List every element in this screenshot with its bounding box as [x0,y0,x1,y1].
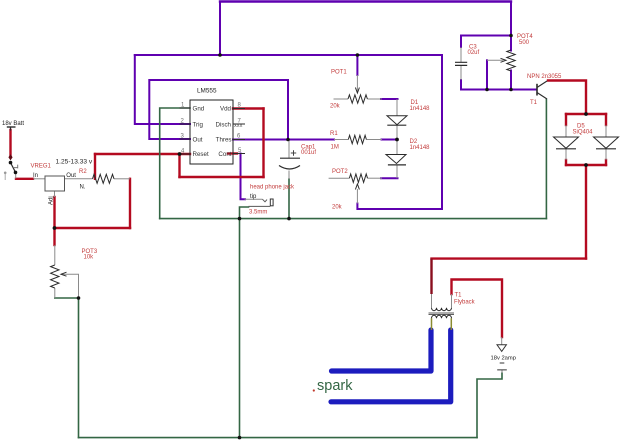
wire R2 right lead [114,178,130,180]
svg-text:POT1: POT1 [331,70,347,76]
headphone jack sleeve line [249,205,271,207]
wire D1 bottom lead [396,125,398,139]
wire D5b bottom lead [605,149,607,160]
wire flyback secondary right up and to supply [452,280,503,338]
svg-text:20k: 20k [332,205,343,211]
wire POT2 wiper lead [356,189,358,204]
svg-text:N.: N. [80,185,86,191]
wire D5 left top stub [565,114,567,125]
battery 18v top terminal [7,126,16,128]
capacitor Cap1 curved plate [279,166,300,170]
potentiometer POT1 body [348,95,367,103]
wire top rail [220,0,511,2]
svg-text:18v 2amp: 18v 2amp [491,356,516,362]
svg-text:Out: Out [66,173,76,179]
potentiometer POT2 wiper arrow [355,184,359,190]
wire supply negative return [477,373,502,438]
svg-text:SiQ404: SiQ404 [573,130,594,136]
wire top rail to POT4 top [510,2,512,36]
capacitor C3 plates [455,62,467,65]
wire VREG Out lead to R2 [65,178,93,180]
wire D2 top lead [396,140,398,155]
svg-text:1M: 1M [331,145,339,151]
wire reset line y154 [95,153,190,155]
switch actuator mark [13,165,18,169]
wire thres line pin6 to R1 [233,139,334,141]
wire battery to switch [9,130,11,157]
svg-text:Adj: Adj [49,196,55,205]
wire POT1 left stub [334,98,349,100]
wire POT2 right lead [368,177,383,179]
wire flyback secondary lead left (olive) [431,318,433,330]
wire 555 red loop bottom [180,176,264,178]
wire VREG Adj lead [54,191,56,197]
wire 555 red loop right vertical [262,109,264,178]
wire D2 bottom lead [396,165,398,178]
resistor R1 [348,135,366,143]
svg-text:Thres: Thres [216,136,232,143]
wire D5 left bottom stub [565,160,567,165]
wire emitter down [545,100,547,219]
supply battery cell lines [497,363,507,370]
wire Cap1 top lead [288,140,290,159]
svg-text:LM555: LM555 [197,88,217,95]
transformer T1 secondary winding [432,315,452,318]
wire VREG In lead [33,178,45,180]
wire y258.6 horizontal to flyback [432,257,587,259]
svg-text:T1: T1 [455,293,463,299]
wire flyback primary right lead [451,294,453,308]
svg-text:001uf: 001uf [301,150,316,156]
wire D5a top lead [565,125,567,137]
node top rail / x220 [218,53,222,57]
svg-text:tip: tip [250,194,257,200]
svg-text:Vdd: Vdd [220,105,232,112]
555 pin stubs right [233,109,245,154]
svg-text:18v Batt: 18v Batt [2,121,24,127]
wire POT4 wiper arm [487,59,504,61]
wire C3 top link [461,35,511,37]
wire POT4 wiper drop [486,60,488,89]
node POT1 wiper tap [356,53,360,57]
wire D5 right bottom stub [605,160,607,165]
svg-text:Out: Out [193,136,203,143]
svg-text:POT2: POT2 [332,169,348,175]
node POT4 top [509,34,513,38]
wire D5 down to y258.6 [585,165,587,259]
555 pin stubs left [180,108,191,154]
node POT4 bottom join [509,88,513,92]
wire bottom rail [79,437,478,439]
svg-text:1n4148: 1n4148 [410,106,431,112]
wire D1 top lead [396,99,398,116]
node POT4 wiper join [485,88,489,92]
switch contact dots [9,161,13,165]
svg-text:Cont: Cont [218,151,231,158]
wire dark red flyback primary left [430,259,432,294]
diode D1 [387,116,407,125]
node R1/diode chain [395,138,399,142]
op-amp U1 555 timer box [190,100,233,164]
node bottom rail join [238,436,242,440]
wire C3 top plate lead [460,47,462,62]
wire flyback secondary lead right (olive) [450,318,452,330]
potentiometer POT4 body [507,50,515,71]
wire big-rect right vertical x442 [441,55,443,209]
node thres/cap1 [286,138,290,142]
wire y209 horizontal to POT2 wiper [357,204,442,210]
wire POT3 to bottom rail [55,298,79,438]
headphone jack body [270,199,273,206]
wire D5 bottom bar [566,164,606,166]
node jack gnd [238,217,242,221]
wire C3/POT4 bottom rail to transistor base [461,89,537,91]
svg-text:1.25-13.33 v: 1.25-13.33 v [56,159,93,166]
wire R1 right lead [366,139,382,141]
wire pin3 riser and y80 rail [149,80,288,139]
node D5 bottom [584,163,588,167]
transformer T1 core [429,313,455,314]
wire Cap1 bottom lead [288,171,290,180]
wire D5a bottom lead [565,149,567,160]
wire POT1 wiper from y55 rail [356,55,358,75]
svg-text:500: 500 [519,40,530,46]
svg-text:VREG1: VREG1 [31,164,52,170]
wire vertical from top rail to y55 rail [219,2,221,56]
wire Vdd pin8 to loop [233,107,264,109]
svg-text:In: In [33,173,38,179]
transformer T1 flyback primary winding [432,308,452,311]
wire cap1 bottom to rail [288,179,290,219]
svg-text:R1: R1 [330,131,338,137]
potentiometer POT3 body [51,265,59,288]
wire C3 bottom plate lead [460,66,462,81]
svg-text:1n4148: 1n4148 [410,145,431,151]
node adj join [53,226,57,230]
wire POT1 wiper lead [356,75,358,92]
svg-text:02uf: 02uf [468,50,480,56]
potentiometer POT4 wiper arrow [501,58,507,62]
stray red dot near spark [313,389,315,391]
wire ground rail y218.6 [160,218,547,220]
svg-text:R2: R2 [79,169,87,175]
node POT3 bottom join [77,296,81,300]
svg-text:head phone jack: head phone jack [250,184,295,190]
wire POT4 bottom lead [510,71,512,90]
wire jack node down to bottom rail [239,219,241,438]
unconnected pin mark [4,174,6,180]
wire POT2 left stub [329,177,350,179]
switch SW1 arm [11,163,16,173]
wire POT3 top lead [54,245,56,265]
node cap1 gnd [287,217,291,221]
wire R1 right to D-chain [382,139,396,141]
diode D2 [386,155,406,164]
wire C3 left top lead [460,36,462,48]
voltage regulator VREG1 box [45,176,65,191]
wire switch to VREG In [16,178,33,180]
svg-text:Disch: Disch [216,121,232,128]
wire 555 red loop left vertical [178,154,180,177]
svg-text:Trig: Trig [193,121,204,128]
svg-text:xxx: xxx [234,123,243,129]
transistor Q1 NPN 2n3055 [537,81,547,99]
svg-text:spark: spark [317,378,353,394]
wire pin5 down to jack tip [241,154,246,200]
wire R2 right down [129,179,131,228]
battery lower diamond [8,154,12,160]
wire pin2 drop [135,55,190,124]
wire supply top lead [501,337,503,345]
potentiometer POT2 body [349,174,367,182]
diode D5a [554,137,579,148]
wire C3 bottom lead [460,80,462,90]
svg-text:Flyback: Flyback [454,300,476,306]
wire Adj down [53,197,55,245]
wire supply battery stem [501,370,503,373]
wire POT3 wiper [61,274,79,298]
headphone jack contact tip [263,199,268,202]
wire switch lower stub [15,174,17,179]
svg-text:10k: 10k [84,255,95,261]
svg-text:3.5mm: 3.5mm [249,210,267,216]
wire pin5 red stub [228,152,237,154]
svg-text:Gnd: Gnd [193,105,205,112]
wire flyback primary left lead [431,294,433,308]
diode D5b [594,137,619,148]
power port triangle 18v [497,345,506,352]
potentiometer POT3 wiper arrow [61,272,67,276]
wire VREG Out node up to reset line [94,154,96,179]
wire x288 vertical to thres line [287,80,289,140]
wire D5b top lead [605,125,607,137]
wire y228 horizontal [55,227,131,229]
wire D5 right top stub [605,114,607,125]
wire POT4 top lead [510,36,512,51]
wire POT2 right to D2 [381,177,398,179]
wire pin1 gnd [160,108,190,219]
wire collector to D5 [548,81,586,115]
svg-text:NPN 2n3055: NPN 2n3055 [527,74,562,80]
wire POT1 right lead [367,98,382,100]
svg-text:Reset: Reset [193,151,209,158]
wire y55 rail [135,54,442,56]
resistor R2 [93,174,115,183]
wire R1 left lead [334,139,348,141]
potentiometer POT1 wiper arrow [355,88,359,94]
wire POT3 bottom lead [54,288,56,298]
wire POT1 right to D1 [381,98,398,100]
wire spark electrode bottom [331,330,451,402]
wire jack tip lead [245,198,263,200]
node D5 top [584,112,588,116]
wire jack sleeve to rail [240,207,249,219]
wire spark electrode top [332,330,432,371]
wire D5 top bar [566,113,606,115]
svg-text:20k: 20k [330,104,341,110]
svg-text:T1: T1 [530,100,538,106]
capacitor Cap1 top plate [280,157,300,159]
node reset join [178,152,182,156]
capacitor Cap1 plus sign [291,150,296,155]
